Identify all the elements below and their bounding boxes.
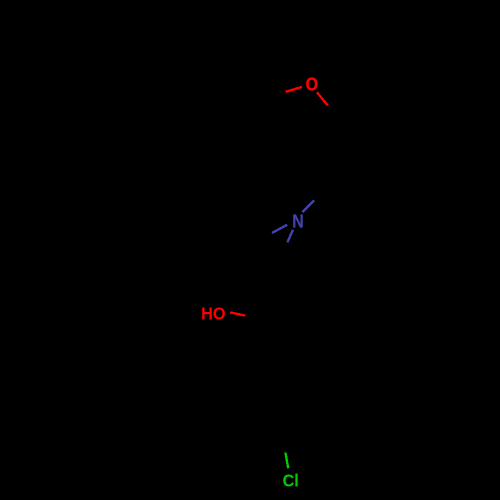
wire C7-C6 benzene bond [171, 73, 217, 100]
wire CH2b-COH bond [262, 264, 279, 316]
wire C3-CH2a bond [316, 168, 329, 179]
wire C7a-C7 benzene bond [217, 73, 261, 100]
chlorine half-bond (green) [285, 453, 288, 469]
wire ring-Cl black half [283, 437, 285, 453]
amine nitrogen half-bonds (blue) [272, 200, 314, 242]
hydroxyl half-bond (red) [230, 312, 245, 315]
wire C6-C5 benzene bond [170, 100, 172, 153]
wire N-CH2b blue half [287, 230, 293, 243]
wire Cl-ring red half [285, 453, 288, 469]
wire N-CH3 black half [247, 233, 272, 244]
wire phenyl ring [244, 368, 322, 466]
svg-text:N: N [292, 212, 303, 232]
wire O1-C2 red half [317, 92, 328, 105]
benzofuran oxygen half-bonds (red) [286, 87, 328, 106]
wire N-CH2a blue half [302, 200, 314, 212]
wire C3-C2 furan bond [316, 127, 344, 168]
wire COH-O black half [245, 315, 262, 318]
wire C7a-O1 black half [261, 92, 286, 100]
wire C2-O1 black half [328, 106, 345, 128]
hidden carbon skeleton (black bonds on black background) [171, 73, 344, 466]
wire CH2a-N black half [314, 179, 329, 200]
svg-text:Cl: Cl [283, 471, 299, 491]
wire O1-C7a red half [286, 87, 302, 92]
wire C5-C4 benzene bond [171, 153, 217, 180]
wire O-COH red half [230, 312, 245, 315]
wire C3a-C3 furan bond [263, 153, 316, 168]
wire N-CH2b black half [279, 243, 287, 265]
wire C3a-C7a benzene bond [261, 100, 263, 153]
wire N-CH3 blue half [272, 225, 287, 233]
svg-text:HO: HO [201, 304, 226, 324]
wire C4-C3a benzene bond [217, 153, 263, 180]
wire COH-ipso bond [262, 316, 271, 368]
svg-text:O: O [306, 74, 318, 94]
